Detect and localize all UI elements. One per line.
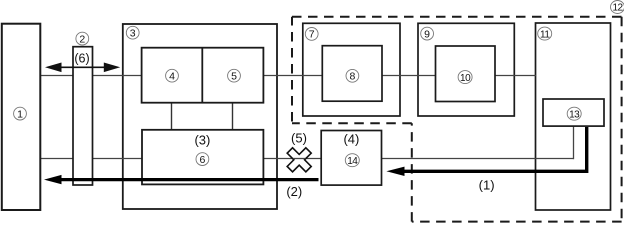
box 14	[321, 131, 381, 186]
svg-text:13: 13	[569, 109, 580, 120]
svg-text:(2): (2)	[286, 184, 302, 199]
box 1	[2, 24, 41, 210]
svg-text:2: 2	[79, 33, 85, 45]
label 13 (circled)	[567, 107, 581, 120]
wire segment through X centre	[293, 158, 306, 160]
box 11	[536, 23, 611, 210]
svg-text:3: 3	[130, 27, 136, 39]
box 13	[543, 99, 604, 126]
label 4 (circled)	[166, 69, 179, 82]
wire: vertical from box 13 down to lower line	[573, 126, 575, 159]
label 1 (circled)	[14, 107, 27, 120]
label 10 (circled)	[458, 71, 472, 84]
stub wire between box 5 and box 6	[232, 103, 234, 130]
box 6	[142, 130, 263, 185]
wire: lower horizontal line y=159	[40, 158, 573, 160]
svg-text:(5): (5)	[291, 131, 307, 146]
label 2 (circled)	[76, 32, 89, 45]
label 9 (circled)	[421, 27, 434, 40]
box 3 (outline)	[123, 24, 277, 209]
svg-text:(3): (3)	[194, 133, 210, 148]
svg-text:(6): (6)	[74, 52, 89, 66]
svg-text:(4): (4)	[343, 131, 359, 146]
bold arrow (1): from box 13 down and left into box 14	[402, 127, 587, 171]
svg-text:12: 12	[612, 3, 623, 14]
label 14 (circled)	[345, 154, 359, 167]
stub wire between box 4 and box 6	[171, 103, 173, 130]
label 8 (circled)	[346, 69, 359, 82]
X symbol (5) on lower line	[281, 141, 318, 178]
svg-text:10: 10	[460, 73, 471, 84]
svg-text:(1): (1)	[479, 177, 495, 192]
double-headed arrow between box 1 and box 3	[58, 66, 107, 68]
svg-text:4: 4	[169, 70, 175, 82]
box 9 (outline)	[418, 23, 514, 116]
box 2	[73, 47, 93, 185]
svg-text:14: 14	[347, 156, 358, 167]
svg-text:6: 6	[199, 154, 205, 166]
bold arrow (2): from box 14 left edge to box 1	[59, 178, 319, 181]
label 3 (circled)	[126, 26, 139, 39]
svg-text:7: 7	[309, 29, 315, 41]
svg-text:1: 1	[17, 108, 23, 120]
label 5 (circled)	[228, 69, 241, 82]
wire: upper horizontal bus y=75.7	[40, 75, 536, 77]
label 11 (circled)	[538, 27, 552, 40]
label 7 (circled)	[305, 28, 318, 41]
svg-text:11: 11	[540, 29, 550, 40]
svg-text:9: 9	[424, 28, 430, 40]
dashed region 12 outline	[292, 17, 622, 222]
svg-text:8: 8	[349, 71, 355, 83]
label 6 (circled)	[196, 153, 209, 166]
divider between box 4 and box 5	[201, 48, 203, 103]
box 4 and box 5 pair	[142, 48, 264, 103]
box 8	[322, 46, 382, 101]
box 10	[436, 46, 496, 102]
svg-text:5: 5	[231, 70, 237, 82]
label 12 (circled)	[611, 1, 624, 14]
box 7 (outline)	[303, 23, 400, 116]
